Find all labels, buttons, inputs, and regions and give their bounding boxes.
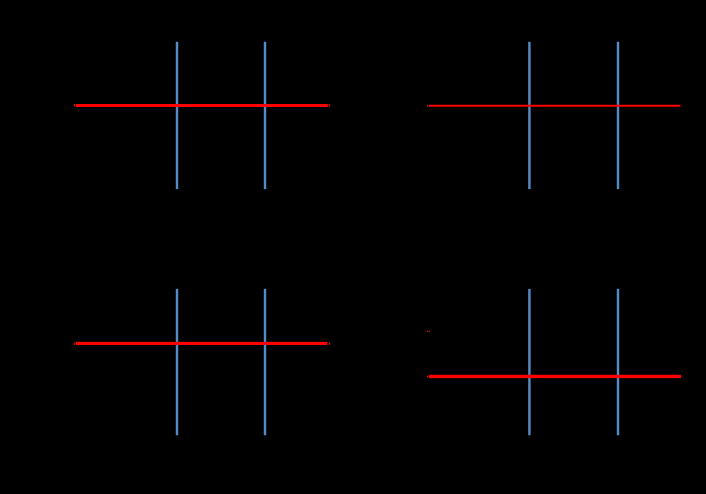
blue vline TL-2 bbox=[264, 42, 266, 189]
red hline TL bbox=[76, 104, 328, 107]
blue vline BL-1 bbox=[176, 289, 178, 435]
red hline TR left cap dot bbox=[427, 105, 428, 107]
red hline BR left cap dot bbox=[427, 376, 429, 378]
red hline BR bbox=[429, 375, 681, 378]
red hline TL left cap dot bbox=[74, 104, 75, 106]
blue vline BR-2 bbox=[617, 289, 619, 435]
red hline TL right cap dot bbox=[329, 104, 331, 107]
blue vline TR-1 bbox=[528, 42, 530, 189]
red hline BL right cap dot bbox=[329, 342, 330, 345]
red hline BL left cap dot bbox=[74, 343, 75, 345]
blue vline TL-1 bbox=[176, 42, 178, 189]
red hline TR bbox=[429, 105, 681, 107]
red marker dots BR pair bbox=[427, 330, 429, 332]
blue vline BL-2 bbox=[264, 289, 266, 435]
blue vline TR-2 bbox=[617, 42, 619, 189]
red hline BL bbox=[76, 342, 327, 345]
blue vline BR-1 bbox=[528, 289, 530, 435]
